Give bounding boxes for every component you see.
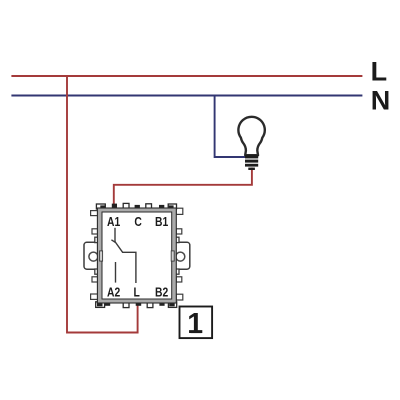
label N — [371, 86, 391, 116]
terminal label B2 — [155, 287, 168, 300]
svg-text:A2: A2 — [107, 287, 120, 300]
switch box side tabs — [91, 208, 183, 300]
switch box bottom tabs — [96, 302, 177, 308]
terminal label L — [134, 287, 140, 300]
position marker box 1 — [180, 307, 213, 341]
switch box right ear — [174, 237, 190, 274]
switch box frame — [97, 208, 176, 303]
lamp screw base — [245, 155, 258, 170]
wire red from lamp to A1 terminal — [114, 168, 252, 205]
terminal label A2 — [107, 287, 120, 300]
switch symbol: A1 stub — [114, 228, 116, 242]
label L — [371, 57, 388, 87]
svg-text:L: L — [371, 57, 388, 87]
svg-text:A1: A1 — [107, 216, 121, 229]
terminal label A1 — [107, 216, 121, 229]
net N bus — [11, 95, 362, 97]
svg-text:C: C — [134, 216, 141, 229]
svg-text:B1: B1 — [155, 216, 169, 229]
switch box left ear — [84, 237, 100, 274]
wire blue from N bus to lamp — [215, 95, 247, 157]
net L bus — [11, 75, 362, 77]
svg-text:N: N — [371, 86, 391, 116]
terminal label C — [134, 216, 141, 229]
svg-text:B2: B2 — [155, 287, 168, 300]
wire red from L bus to switch L terminal — [67, 75, 138, 332]
switch box top tabs — [96, 203, 176, 209]
terminal label B1 — [155, 216, 169, 229]
frame latch nubs — [100, 251, 175, 261]
svg-text:1: 1 — [187, 308, 203, 340]
lamp bulb — [238, 117, 264, 155]
svg-text:L: L — [134, 287, 140, 300]
switch symbol: lever and common to L — [115, 242, 136, 283]
switch symbol: A2 stub — [115, 262, 117, 283]
switch symbol: contact tick — [111, 240, 115, 243]
